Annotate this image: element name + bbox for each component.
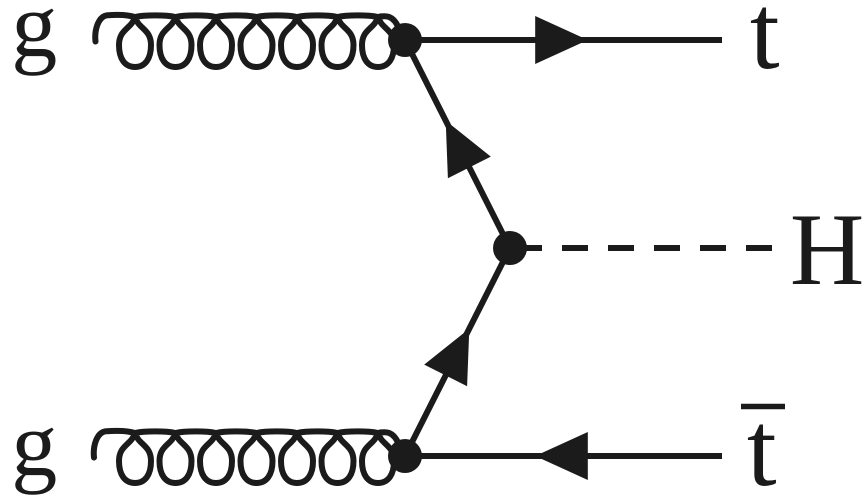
fermion propagator V2-V3 (internal top quark, lower) — [405, 248, 510, 456]
vertex V3 (top-top-Higgs Yukawa vertex, middle) — [493, 231, 527, 265]
fermion propagator V1-V3 (internal top quark, upper) — [405, 40, 510, 248]
vertex V1 (gluon-top-top vertex, top) — [388, 23, 422, 57]
svg-text:g: g — [11, 393, 57, 495]
gluon g2 (bottom incoming gluon coil) — [94, 431, 399, 483]
svg-text:H: H — [790, 193, 864, 307]
arrow on bottom tbar line — [535, 432, 588, 480]
fermion line t (top outgoing top quark) — [405, 37, 722, 43]
svg-text:g: g — [11, 0, 57, 76]
arrow on upper internal propagator — [446, 121, 491, 179]
overline of tbar label — [741, 404, 785, 410]
arrow on lower internal propagator — [424, 329, 469, 387]
fermion line tbar (bottom outgoing anti-top quark) — [405, 453, 722, 459]
higgs line (dashed scalar propagator) — [516, 245, 772, 251]
gluon g1 (top incoming gluon coil) — [95, 15, 399, 67]
arrow on top t line — [535, 16, 588, 64]
vertex V2 (gluon-top-top vertex, bottom) — [388, 439, 422, 473]
svg-text:t: t — [750, 0, 780, 92]
